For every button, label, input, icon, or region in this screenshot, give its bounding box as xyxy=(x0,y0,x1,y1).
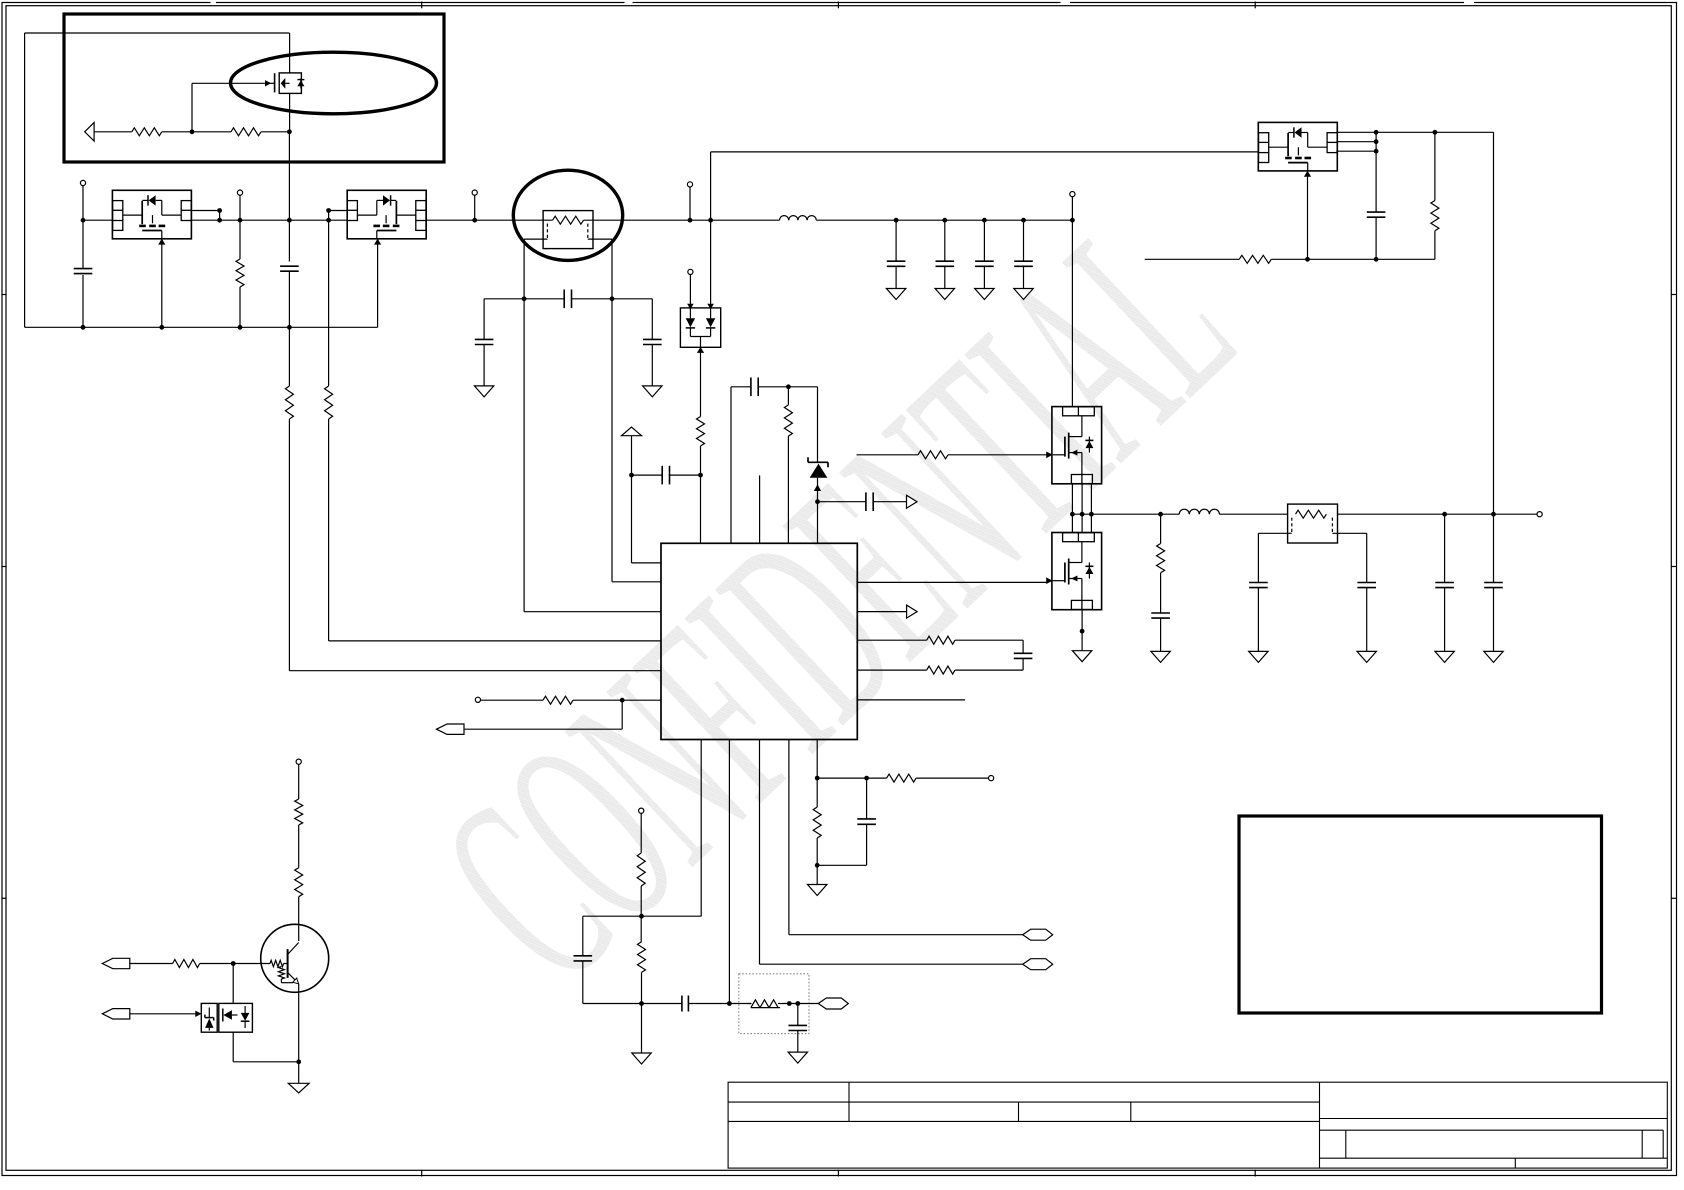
resistor R5 (feedback drop right) xyxy=(325,386,333,419)
filter FL1 (sense resistor box) xyxy=(1288,504,1338,543)
wire C4 to ground xyxy=(483,345,485,386)
emphasis box bottom-right xyxy=(1239,816,1602,1013)
junction VCC rail xyxy=(1070,218,1075,223)
capacitor C1 xyxy=(71,268,95,275)
wire Q7 emitter down xyxy=(298,984,300,1083)
wire EN to R14 xyxy=(481,699,544,701)
resistor R1 xyxy=(132,128,162,136)
capacitor C5 xyxy=(643,338,662,340)
wire U1 vref pin xyxy=(816,740,818,808)
capacitor C12 xyxy=(1249,582,1268,584)
wire Q4 drain B xyxy=(1336,141,1376,143)
wire C6 drop xyxy=(895,220,897,261)
wire F1 down xyxy=(631,436,633,563)
inductor L1 xyxy=(780,216,817,221)
wire R16 to C xyxy=(816,838,818,865)
transistor Q7 (digital NPN) xyxy=(261,924,329,992)
wire C19 to lower xyxy=(1022,658,1024,670)
junction snubber left-mid xyxy=(522,296,527,301)
wire Q2 drain out B xyxy=(191,219,219,221)
wire FL1 to output port xyxy=(1338,513,1538,515)
wire VCC drop to rail xyxy=(1071,197,1073,407)
wire snubber right branch xyxy=(651,299,653,340)
dotted option box xyxy=(739,974,809,1034)
capacitor C4 xyxy=(475,338,494,340)
junction cap C9 rail xyxy=(1021,218,1026,223)
signal arrow out 1 xyxy=(907,495,918,508)
junction VOUT1 xyxy=(472,218,477,223)
wire res tap down xyxy=(1160,514,1162,543)
wire base drop xyxy=(232,964,234,1004)
junction vref B xyxy=(864,776,869,781)
wire x1376 down xyxy=(1375,132,1377,212)
wire R11 stubs xyxy=(787,387,789,405)
wire Q6 top pins xyxy=(1071,514,1073,532)
wire C20 to D xyxy=(866,824,868,865)
resistor R17 xyxy=(637,853,645,886)
wire C to ground xyxy=(816,865,818,884)
wire c15 drop xyxy=(1493,514,1495,582)
resistor R11 xyxy=(784,405,792,436)
resistor R8 xyxy=(918,451,948,459)
wire B to C20 xyxy=(866,778,868,819)
wire Q1 gate net xyxy=(192,82,271,84)
wire Q5 pins to sw rail xyxy=(1071,484,1073,514)
port terminal VIN1 xyxy=(80,180,85,185)
wire Q4 drain C xyxy=(1336,150,1376,152)
wire zener feed xyxy=(817,387,819,463)
input flag EN xyxy=(437,724,465,734)
wire D1 to R10 xyxy=(700,347,702,416)
junction base node xyxy=(231,961,236,966)
junction comp2 node xyxy=(639,914,644,919)
diode D3 (ESD dual package) xyxy=(201,1003,252,1032)
wire snubber left branch xyxy=(483,299,485,340)
emphasis ellipse around Q1 xyxy=(231,52,437,114)
emphasis circle around T1 xyxy=(513,170,622,260)
wire C22 to ss pin xyxy=(688,1003,729,1005)
output tag hex 1 xyxy=(1023,959,1053,970)
resistor R14 xyxy=(543,696,573,704)
diode D1 (dual diode) xyxy=(680,308,720,347)
wire C to D xyxy=(817,864,866,866)
port terminal SS xyxy=(639,808,644,813)
junction comp node xyxy=(815,499,820,504)
wire C7 drop xyxy=(944,220,946,261)
wire R17 to node xyxy=(640,886,642,942)
border zone tick right 1 xyxy=(1671,294,1677,296)
wire comp2 left xyxy=(583,915,642,917)
ground xyxy=(1014,289,1033,300)
input flag CTRL2 xyxy=(102,1009,130,1019)
junction gnd node xyxy=(639,1001,644,1006)
junction cap C8 rail xyxy=(982,218,987,223)
wire C9 drop xyxy=(1023,220,1025,261)
wire R3 to bottom rail xyxy=(239,287,241,327)
wire Q1 source continues xyxy=(288,132,290,262)
wire R1 to R2 xyxy=(162,131,231,133)
ground xyxy=(886,289,905,300)
capacitor C18 (series) xyxy=(865,492,867,511)
inductor L2 xyxy=(1179,509,1219,514)
wire en drop xyxy=(621,700,623,729)
capacitor C2 xyxy=(280,265,299,267)
wire Q2 source to rail xyxy=(161,239,163,327)
junction Q4 source rail xyxy=(1305,257,1310,262)
ground xyxy=(474,386,493,397)
ground xyxy=(632,1053,651,1064)
wire R21 to base xyxy=(200,963,270,965)
D3 entry arrow xyxy=(195,1011,201,1017)
wire BST to D1 xyxy=(689,275,691,308)
transistor Q6 (low-side MOSFET) xyxy=(1046,533,1101,610)
border zone tick left 2 xyxy=(1,566,6,568)
wire U1 fb lower xyxy=(857,669,926,671)
output tag hex 3 xyxy=(818,998,848,1009)
capacitor C15 xyxy=(1484,582,1503,584)
wire SW1 stub xyxy=(689,187,691,220)
resistor R10 xyxy=(697,417,705,446)
varistor RV1 xyxy=(749,1000,780,1008)
wire C15 gnd xyxy=(1493,588,1495,652)
wire R8 to Q5 xyxy=(948,454,1047,456)
wire RV1 to hex xyxy=(780,1003,818,1005)
wire C12 gnd xyxy=(1257,588,1259,652)
junction Q2 out A xyxy=(217,208,222,213)
wire Q4 drain A xyxy=(1336,131,1435,133)
wire R13 to corner xyxy=(955,669,1023,671)
wire Q3 in A xyxy=(329,210,348,212)
capacitor C16 (series) xyxy=(661,466,663,485)
wire CTRL2 to D3 xyxy=(130,1013,197,1015)
resistor R4 (feedback drop left) xyxy=(285,386,293,419)
wire U1 comp2 pin xyxy=(700,740,702,917)
wire L1 to caps rail xyxy=(816,219,1072,221)
wire R2 to Q1 source xyxy=(261,131,289,133)
capacitor C20 xyxy=(857,818,876,820)
resistor R9 xyxy=(1157,544,1165,573)
resistor R13 xyxy=(927,666,955,674)
wire C7 to ground xyxy=(944,266,946,288)
wire T1 right drop xyxy=(611,239,613,582)
port terminal BST xyxy=(688,269,693,274)
junction cap C7 rail xyxy=(942,218,947,223)
op-amp U1 (controller IC) xyxy=(661,543,857,739)
capacitor C19 xyxy=(1014,652,1033,654)
capacitor C21 xyxy=(574,955,593,957)
port terminal SW1 xyxy=(687,182,692,187)
wire P1 to R1 xyxy=(94,131,132,133)
junction out c15 xyxy=(1491,512,1496,517)
ground xyxy=(1249,651,1268,662)
border zone tick left 3 xyxy=(1,897,6,899)
wire tapL down xyxy=(1257,533,1259,582)
port terminal VIN2 xyxy=(237,190,242,195)
capacitor C7 xyxy=(936,260,955,262)
port terminal VOUT1 xyxy=(472,190,477,195)
wire rv cap drop xyxy=(797,1004,799,1026)
capacitor C9 xyxy=(1014,260,1033,262)
junction sw c xyxy=(1089,512,1094,517)
wire R7 to x1435 xyxy=(1271,258,1435,260)
port terminal VREF xyxy=(989,776,994,781)
wire C14 gnd xyxy=(1444,588,1446,652)
ground xyxy=(808,885,827,896)
wire R19 to R20 xyxy=(298,825,300,868)
title block xyxy=(728,1082,1667,1168)
junction Q4 B xyxy=(1374,139,1379,144)
wire U1 ss pin xyxy=(728,740,730,1004)
junction cap C6 rail xyxy=(894,218,899,223)
border zone tick bottom 2 xyxy=(837,1170,839,1177)
resistor R21 xyxy=(173,960,200,968)
wire Q3 out rail xyxy=(426,219,513,221)
wire ss to RV1 xyxy=(729,1003,751,1005)
resistor R7 xyxy=(1239,255,1271,263)
wire C8 drop xyxy=(983,220,985,261)
wire Q2 drain out A xyxy=(191,210,219,212)
capacitor C10 xyxy=(1367,211,1386,213)
resistor R19 xyxy=(295,799,303,825)
border zone tick right 3 xyxy=(1671,897,1677,899)
wire rail through T1 xyxy=(513,219,552,221)
ground xyxy=(643,386,662,397)
wire R9 to C11 xyxy=(1160,573,1162,613)
wire F1 to C16 xyxy=(632,474,663,476)
wire top loop horizontal xyxy=(25,32,290,34)
junction rail x710 xyxy=(708,218,713,223)
junction rv b xyxy=(795,1001,800,1006)
wire bottom rail xyxy=(25,326,378,328)
input port arrow P1 xyxy=(85,123,94,142)
ground xyxy=(1072,651,1091,662)
resistor R18 xyxy=(638,942,646,973)
ground xyxy=(935,289,954,300)
wire Q3 source down xyxy=(377,239,379,327)
wire rail into Q2 xyxy=(83,219,112,221)
signal arrow out 2 xyxy=(907,605,918,618)
wire C18 to arrow xyxy=(873,501,906,503)
wire en flag line xyxy=(464,728,622,730)
wire C13 gnd xyxy=(1366,588,1368,652)
junction Q1 rail xyxy=(287,218,292,223)
wire FL1 tap right xyxy=(1332,532,1366,534)
wire osc node right xyxy=(788,386,817,388)
junction C2 bottom rail xyxy=(287,325,292,330)
wire Q1 gate drop xyxy=(191,83,193,132)
transistor Q3 (packaged MOSFET mirrored) xyxy=(347,190,426,239)
ground xyxy=(1484,651,1503,662)
wire comp2 corner down xyxy=(582,916,584,956)
wire Q4 drain to right rail xyxy=(1435,131,1494,133)
junction Q2 out B xyxy=(217,218,222,223)
wire FL1 tap left xyxy=(1258,532,1291,534)
wire C8 to ground xyxy=(983,266,985,288)
junction sw b xyxy=(1080,512,1085,517)
junction rv a xyxy=(787,1001,792,1006)
port terminal BIAS xyxy=(296,759,301,764)
resistor R6 xyxy=(1431,201,1439,231)
wire C9 to ground xyxy=(1023,266,1025,288)
wire T1 tap left xyxy=(524,238,547,240)
wire VIN2 drop xyxy=(239,195,241,259)
transistor Q5 (high-side MOSFET) xyxy=(1046,407,1101,484)
capacitor C14 xyxy=(1435,582,1454,584)
wire tapR down xyxy=(1366,533,1368,582)
wire BIAS down xyxy=(298,764,300,799)
transistor Q1 (MOSFET in ellipse) xyxy=(265,33,304,132)
wire x710 into D1 xyxy=(687,304,694,309)
Q4 source arrow xyxy=(1304,171,1311,177)
wire U1 sync pin xyxy=(759,740,761,965)
wire gate1 feed xyxy=(857,454,919,456)
resistor R16 xyxy=(813,807,821,838)
wire sw rail xyxy=(1072,513,1179,515)
wire C2 to bottom rail xyxy=(288,271,290,386)
wire L2 to FL1 xyxy=(1219,513,1287,515)
wire D3 bottom xyxy=(232,1032,234,1062)
port terminal VOUT2 xyxy=(1537,512,1542,517)
D1 exit arrow xyxy=(697,347,704,353)
border zone tick bottom 3 xyxy=(1254,1170,1256,1177)
wire R14 to U1 xyxy=(573,699,661,701)
resistor R2 xyxy=(231,128,261,136)
wire x1435 down xyxy=(1434,132,1436,200)
wire SS to R17 xyxy=(640,813,642,853)
ground xyxy=(1435,651,1454,662)
border zone tick right 2 xyxy=(1671,566,1677,568)
junction VIN2 rail xyxy=(238,218,243,223)
wire D2 to U1 xyxy=(817,478,819,544)
capacitor C13 xyxy=(1357,582,1376,584)
junction Q4 A xyxy=(1374,130,1379,135)
junction osc node xyxy=(786,384,791,389)
port terminal EN xyxy=(475,697,480,702)
wire U1 mode pin xyxy=(788,740,790,935)
wire U1 nc pin xyxy=(857,699,965,701)
junction rail x690 xyxy=(688,218,693,223)
wire R10 to node xyxy=(700,446,702,543)
wire R12 to corner xyxy=(955,639,1023,641)
border zone tick bottom 1 xyxy=(421,1170,423,1177)
resistor R3 xyxy=(236,259,244,287)
capacitor C17 (series) xyxy=(750,378,752,397)
junction rail x328 B xyxy=(326,218,331,223)
junction sw a xyxy=(1070,512,1075,517)
wire gate2 feed xyxy=(857,581,1046,583)
wire R18 to gnd node xyxy=(641,972,643,1053)
border zone tick top 1 xyxy=(421,2,423,9)
Q3 source arrow xyxy=(374,239,381,245)
junction F1 cap xyxy=(629,473,634,478)
wire gate feed top xyxy=(711,151,1259,153)
junction vref C xyxy=(815,863,820,868)
wire R20 to Q7 xyxy=(298,897,300,941)
wire R15 to port xyxy=(916,777,988,779)
ground xyxy=(1357,651,1376,662)
ground xyxy=(788,1052,807,1063)
power flag F1 xyxy=(622,427,642,436)
junction node gate xyxy=(190,129,195,134)
wire R5 to U1 xyxy=(328,419,330,641)
capacitor C6 xyxy=(887,260,906,262)
wire ss rail right xyxy=(642,1003,682,1005)
wire C10 down xyxy=(1375,217,1377,259)
capacitor C8 xyxy=(975,260,994,262)
input flag CTRL1 xyxy=(102,958,130,968)
wire Q2 out link xyxy=(219,211,221,221)
junction x1435 xyxy=(1433,130,1438,135)
junction out c14 xyxy=(1442,512,1447,517)
border zone tick top 3 xyxy=(1254,2,1256,9)
Q2 source arrow xyxy=(158,239,165,245)
ground xyxy=(975,289,994,300)
wire R4 to U1 xyxy=(288,419,290,671)
wire x328 link xyxy=(328,211,330,221)
wire VIN1 drop xyxy=(82,186,84,328)
junction boot node xyxy=(698,473,703,478)
junction Q6 source xyxy=(1080,629,1085,634)
wire T1 tap right xyxy=(588,238,612,240)
ground xyxy=(1151,651,1170,662)
output tag hex 2 xyxy=(1023,929,1053,940)
junction R3 bottom rail xyxy=(238,325,243,330)
wire x710 vertical xyxy=(710,152,712,307)
ground xyxy=(288,1083,309,1093)
wire top loop left vertical xyxy=(24,33,26,327)
wire C5 to ground xyxy=(651,345,653,386)
junction C1 bottom rail xyxy=(81,325,86,330)
wire R6 down xyxy=(1434,231,1436,259)
wire T1 left drop xyxy=(523,239,525,612)
emphasis box top-left xyxy=(64,14,444,162)
junction rail x328 A xyxy=(326,208,331,213)
wire C17 to node xyxy=(758,386,788,388)
junction ss pin xyxy=(727,1001,732,1006)
wire C16 to boot node xyxy=(670,474,701,476)
wire B to R15 xyxy=(867,777,887,779)
junction Q1 source xyxy=(287,129,292,134)
transformer T1 (current sense element) xyxy=(543,211,593,249)
resistor R15 xyxy=(887,774,917,782)
junction sw res tap xyxy=(1158,512,1163,517)
junction snubber right-mid xyxy=(610,296,615,301)
wire CTRL1 to R21 xyxy=(130,963,173,965)
junction Q4 C xyxy=(1374,149,1379,154)
wire C6 to ground xyxy=(895,266,897,288)
capacitor C22 (series) xyxy=(681,996,683,1012)
capacitor C11 xyxy=(1151,612,1170,614)
capacitor C23 xyxy=(789,1024,808,1026)
wire U1 fb upper xyxy=(857,639,926,641)
transistor Q4 (packaged MOSFET) xyxy=(1258,122,1337,170)
wire C11 to ground xyxy=(1160,618,1162,651)
wire Q4 source down xyxy=(1307,172,1309,259)
port terminal VCC xyxy=(1070,192,1075,197)
wire c14 drop xyxy=(1444,514,1446,582)
resistor R12 xyxy=(927,636,955,644)
wire C21 down xyxy=(582,961,584,1004)
junction C10 rail xyxy=(1374,257,1379,262)
wire A to B xyxy=(817,777,866,779)
wire U1 arrow pin xyxy=(857,611,906,613)
wire C23 to gnd xyxy=(797,1031,799,1053)
junction Q2 source rail xyxy=(159,325,164,330)
U1 stub pin xyxy=(759,475,761,543)
junction emitter gnd xyxy=(296,1059,301,1064)
border zone tick left 1 xyxy=(1,294,6,296)
wire mid rail xyxy=(220,219,348,221)
